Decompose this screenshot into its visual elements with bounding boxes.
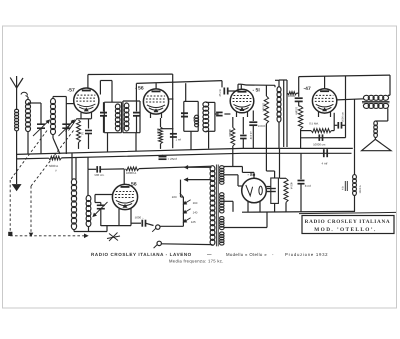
label C10 0.1mf bbox=[249, 131, 252, 140]
wire rail B (ground) bbox=[17, 153, 352, 159]
svg-text:4 b: 4 b bbox=[342, 186, 345, 190]
svg-text:220: 220 bbox=[172, 195, 177, 199]
wire padder bottom drop bbox=[190, 131, 192, 149]
tube V2 -56 bbox=[143, 89, 168, 114]
wire V6 right bbox=[266, 186, 271, 188]
svg-text:RADIO CROSLEY ITALIANA: RADIO CROSLEY ITALIANA bbox=[305, 219, 391, 225]
wire R5 to grid line bbox=[297, 92, 299, 94]
svg-text:25 cm: 25 cm bbox=[218, 88, 222, 96]
wire V1 box top bbox=[76, 118, 91, 120]
wire C20 stems bbox=[274, 171, 276, 212]
wire T3 tap3 bbox=[224, 201, 234, 212]
svg-text:+ 25mf: + 25mf bbox=[168, 157, 177, 161]
resistor R3 30000 (V3 cathode) bbox=[231, 117, 235, 146]
svg-text:20000: 20000 bbox=[288, 95, 296, 98]
label 160 bbox=[193, 201, 198, 205]
svg-text:4 mf: 4 mf bbox=[322, 161, 328, 165]
speaker cone bbox=[362, 137, 391, 151]
capacitor C6 1mf (V2 cathode) bbox=[170, 134, 177, 137]
wire grid line 2 bbox=[136, 81, 222, 84]
wire V6 top bbox=[242, 172, 254, 178]
tube V1 -57 bbox=[74, 88, 99, 113]
wire screen drop bbox=[345, 76, 347, 138]
svg-text:160: 160 bbox=[193, 201, 198, 205]
svg-text:140: 140 bbox=[193, 210, 198, 214]
svg-text:+0.1mf: +0.1mf bbox=[249, 131, 252, 140]
output transformer T2 secondary bbox=[363, 103, 388, 108]
label R1 value bbox=[81, 132, 84, 136]
caption line 2 bbox=[169, 258, 224, 263]
label C17 500 cm bbox=[95, 173, 105, 177]
svg-text:10000 cm: 10000 cm bbox=[313, 142, 326, 146]
wire V4 top line bbox=[299, 75, 390, 89]
svg-text:0.5 MA: 0.5 MA bbox=[262, 103, 265, 112]
svg-text:Media frequenza: 175 kc.: Media frequenza: 175 kc. bbox=[169, 258, 224, 263]
resistor R9 10000 (V5 plate) bbox=[126, 167, 139, 171]
wire V5 pins bbox=[119, 208, 131, 225]
coil L1 (antenna) bbox=[15, 109, 19, 131]
capacitor C12 (grid series) bbox=[295, 98, 303, 106]
label field a b bbox=[342, 181, 348, 191]
label V5 -56 bbox=[128, 181, 137, 187]
svg-text:5000 cm: 5000 cm bbox=[341, 112, 344, 122]
coil L5 (oscillator) bbox=[203, 102, 215, 132]
coil L4 (tickler) bbox=[195, 115, 199, 127]
wire V4 grid drop bbox=[298, 77, 300, 97]
wire PSU drop a bbox=[266, 148, 274, 171]
tube V6 -80 bbox=[242, 178, 267, 203]
svg-text:RADIO CROSLEY ITALIANA - LAVEN: RADIO CROSLEY ITALIANA - LAVENO bbox=[91, 252, 192, 257]
wire rail A (B+) bbox=[17, 148, 353, 154]
variable capacitor C2 (tuning) bbox=[59, 120, 75, 136]
gang dashed vert 2 bbox=[29, 186, 32, 236]
resistor R6 0.5M (V4 grid leak) bbox=[298, 106, 302, 129]
capacitor C11 10000 (V3 screen) bbox=[249, 111, 257, 149]
wire L5 bottom bbox=[208, 131, 210, 148]
wire T1 bottoms bbox=[108, 133, 137, 152]
label 125 bbox=[191, 220, 196, 224]
ground bbox=[12, 185, 20, 191]
svg-text:MOD. ’OTELLO’.: MOD. ’OTELLO’. bbox=[314, 227, 376, 233]
gang dashed diag 1 bbox=[10, 131, 47, 181]
wire R2 bottom bbox=[160, 144, 162, 149]
resistor R1 (V1 cathode) bbox=[77, 120, 81, 149]
svg-text:10000 A: 10000 A bbox=[126, 171, 136, 175]
wire antenna lead bbox=[16, 131, 18, 185]
wire grid bottom run bbox=[301, 137, 346, 139]
wire T3 tap4 bbox=[224, 212, 268, 228]
heater arrow d2 bbox=[181, 178, 212, 197]
svg-text:Produzione 1932: Produzione 1932 bbox=[285, 252, 328, 257]
wire osc bottom bus bbox=[74, 226, 131, 232]
wire V2 pins bbox=[151, 113, 162, 118]
caption line 1 bbox=[91, 252, 328, 257]
label C13 50000 bbox=[341, 112, 344, 122]
wire grid line 1 bbox=[88, 73, 173, 75]
capacitor C10 0.1mf (V3) bbox=[240, 117, 247, 148]
power transformer T3 sec 2 bbox=[220, 193, 224, 213]
svg-text:- 56: - 56 bbox=[135, 86, 144, 92]
IF transformer T1 right winding bbox=[123, 101, 140, 133]
label C21 8mf bbox=[305, 184, 311, 188]
wire C1 stems bbox=[28, 103, 41, 154]
wire plate B+ drop bbox=[354, 99, 356, 148]
coil L6 (choke) bbox=[277, 87, 281, 149]
svg-text:500 cm.: 500 cm. bbox=[95, 173, 105, 177]
wire V1 pins bbox=[81, 112, 92, 119]
power transformer T3 primary bbox=[210, 166, 215, 246]
label 220 bbox=[172, 195, 177, 199]
antenna bbox=[10, 76, 27, 110]
svg-text:30000: 30000 bbox=[228, 129, 231, 137]
svg-text:- 56: - 56 bbox=[128, 181, 137, 187]
plug pin 2 bbox=[154, 241, 162, 248]
wire grid line 1 drop bbox=[172, 74, 174, 148]
label R3 30000 bbox=[228, 129, 231, 137]
power transformer T3 core bbox=[216, 165, 218, 247]
label R7 0.5MA bbox=[309, 121, 319, 125]
heater arrow d1 bbox=[185, 166, 212, 169]
capacitor C13 (tone) bbox=[334, 122, 345, 129]
svg-text:5000 ←: 5000 ← bbox=[135, 216, 145, 220]
capacitor C16 4mf bbox=[324, 149, 327, 157]
title text 1 bbox=[305, 219, 391, 225]
resistor R10 400 (bleeder) bbox=[280, 148, 289, 212]
svg-text:5000: 5000 bbox=[156, 128, 159, 134]
hand X mark bbox=[107, 233, 120, 242]
wire choke top bbox=[275, 80, 279, 87]
svg-text:1300 A: 1300 A bbox=[359, 185, 362, 193]
wire T1 sec top bbox=[135, 83, 137, 101]
svg-text:—: — bbox=[207, 252, 212, 257]
tube V3 -51 bbox=[230, 89, 254, 113]
label field 1300 bbox=[359, 185, 362, 193]
resistor R7 0.5M (bias) bbox=[301, 113, 335, 133]
capacitor C20 (wet electrolytic) bbox=[267, 178, 279, 203]
IF transformer T1 left winding bbox=[104, 102, 121, 133]
resistor R4 0.5M (diode load) bbox=[264, 96, 268, 148]
svg-text:V: V bbox=[55, 169, 57, 172]
svg-text:Modello « Otello »: Modello « Otello » bbox=[226, 252, 267, 257]
label R5 20000 bbox=[288, 95, 296, 98]
capacitor C14 10000cm bbox=[319, 134, 322, 141]
capacitor C19 5000cm bbox=[142, 220, 153, 227]
label R9 10000 bbox=[126, 171, 136, 175]
label V6 -80 bbox=[248, 172, 256, 177]
variable capacitor C18 (trimmer) bbox=[93, 202, 108, 226]
gang dashed vert 1 bbox=[8, 180, 12, 236]
wire V2 top cap bbox=[155, 83, 157, 89]
svg-text:1 mf: 1 mf bbox=[176, 138, 182, 142]
wire T3 tap2 bbox=[224, 175, 243, 186]
wire R6 bottom to rail bbox=[300, 129, 302, 148]
label V3 -51 bbox=[253, 88, 261, 94]
oscillator padder box bbox=[184, 101, 198, 131]
power transformer T3 sec 3 bbox=[220, 217, 224, 230]
label C14 10000 cm bbox=[313, 142, 326, 146]
title text 2 bbox=[314, 227, 376, 233]
title box bbox=[299, 212, 396, 233]
power transformer T3 sec 4 bbox=[220, 232, 224, 245]
wire V5 plate bbox=[123, 169, 125, 184]
output transformer T2 primary bbox=[363, 95, 388, 100]
wire plate line to transformer bbox=[139, 166, 212, 168]
svg-text:8 mf: 8 mf bbox=[305, 184, 311, 188]
label 25 cm bbox=[218, 88, 222, 96]
svg-text:0.5MA: 0.5MA bbox=[295, 107, 298, 115]
label C19 5000 bbox=[135, 216, 145, 220]
wire V3 pins bbox=[237, 112, 248, 117]
wire T3 tap1 bbox=[224, 167, 243, 173]
gang dashed horiz bbox=[10, 234, 88, 237]
svg-text:125: 125 bbox=[191, 220, 196, 224]
capacitor C3 (V1 cathode bypass) bbox=[85, 119, 92, 149]
label R8 5000 bbox=[49, 164, 58, 173]
wire pin2 run bbox=[161, 243, 212, 246]
svg-text:0.1: 0.1 bbox=[81, 132, 84, 136]
coil L7 (voice coil) bbox=[374, 121, 378, 138]
tube V4 -47 bbox=[312, 89, 336, 113]
capacitor C5 (T1 trim) bbox=[133, 101, 140, 133]
gang dashed diag 2 bbox=[31, 131, 74, 187]
capacitor C9 25cm bbox=[222, 81, 241, 95]
svg-text:0.5 MA.: 0.5 MA. bbox=[309, 121, 319, 125]
wire V3 top cap bbox=[240, 84, 242, 89]
capacitor C4 (T1 trim) bbox=[100, 102, 107, 133]
power transformer T3 sec 1 bbox=[220, 166, 224, 185]
svg-text:400 A: 400 A bbox=[289, 182, 293, 189]
switch tap 140 bbox=[183, 209, 190, 213]
label R6 0.5MA bbox=[295, 107, 298, 115]
wire padder top bbox=[185, 83, 187, 101]
wire V5 grid bbox=[95, 195, 112, 203]
coil L9 (osc tank) bbox=[71, 179, 76, 230]
wire T2 right side bbox=[376, 75, 390, 121]
wire L3 tank bbox=[53, 97, 66, 155]
coil L2 (antenna secondary) bbox=[26, 96, 31, 132]
wire PSU bottom bbox=[242, 210, 355, 213]
wire V4 plate bbox=[337, 99, 364, 100]
wire V4 pins bbox=[319, 111, 331, 117]
tube V5 -56 (oscillator) bbox=[112, 184, 137, 209]
coil L8 (field coil) bbox=[353, 148, 357, 211]
wire V6 pins bbox=[248, 202, 260, 212]
svg-text:- 5I: - 5I bbox=[253, 88, 261, 94]
wire V2 plate stub bbox=[169, 98, 174, 100]
output transformer T2 core bbox=[362, 101, 390, 102]
wire V1 top cap bbox=[87, 75, 89, 89]
coil L3 (RF) bbox=[51, 97, 67, 135]
wire vertical pair a bbox=[279, 80, 287, 147]
wire R3 to PSU bbox=[232, 146, 234, 166]
plug pin 1 bbox=[152, 225, 160, 232]
label V2 -56 bbox=[135, 86, 144, 92]
wire pin1 to switch bbox=[160, 225, 183, 227]
wire V3 grid-right run bbox=[241, 84, 275, 96]
wire V1 grid-side bbox=[66, 103, 74, 105]
wire V2 cath tie bbox=[161, 128, 174, 130]
svg-text:10000: 10000 bbox=[258, 125, 266, 128]
label 600 bbox=[192, 117, 195, 122]
resistor R2 (V2 cathode) bbox=[159, 118, 163, 144]
label V1 -57 bbox=[68, 88, 75, 94]
switch tap 160 bbox=[183, 200, 190, 204]
label C16 4mf bbox=[322, 161, 328, 165]
capacitor C7 (padder) bbox=[181, 113, 188, 116]
label C15 25mf bbox=[168, 157, 177, 161]
capacitor C21 8mf bbox=[298, 153, 305, 212]
label 140 bbox=[193, 210, 198, 214]
wire osc drop pair bbox=[72, 153, 76, 180]
wire V1 plate bbox=[100, 81, 112, 103]
label R4 0.5MA bbox=[262, 103, 265, 112]
svg-text:600: 600 bbox=[192, 117, 195, 122]
wire V1 grid return hatch bbox=[66, 119, 77, 132]
coil L10 (osc feedback) bbox=[86, 195, 91, 226]
svg-text:-57: -57 bbox=[68, 88, 75, 94]
resistor R5 20000 bbox=[287, 92, 297, 95]
svg-text:5000 A: 5000 A bbox=[49, 164, 58, 168]
variable capacitor C1 (tuning) bbox=[33, 120, 50, 136]
voltage selector switch bbox=[180, 193, 184, 226]
capacitor C8 (osc coupling) bbox=[215, 112, 231, 115]
label R2 5000 bbox=[156, 128, 159, 134]
capacitor C15 25mf bbox=[159, 155, 167, 159]
wire to line cap bbox=[131, 222, 141, 224]
capacitor C17 500cm bbox=[88, 166, 124, 173]
label R10 400 bbox=[289, 182, 293, 189]
label C11 10000 bbox=[258, 125, 266, 128]
resistor R8 5000 (in rail B) bbox=[49, 156, 62, 160]
svg-text:-47: -47 bbox=[304, 86, 311, 92]
label V4 -47 bbox=[304, 86, 311, 92]
wire L10 top bbox=[87, 157, 89, 196]
switch tap 125 bbox=[183, 218, 190, 222]
wire L2 bottom bbox=[27, 131, 29, 154]
label C6 1mf bbox=[176, 138, 182, 142]
